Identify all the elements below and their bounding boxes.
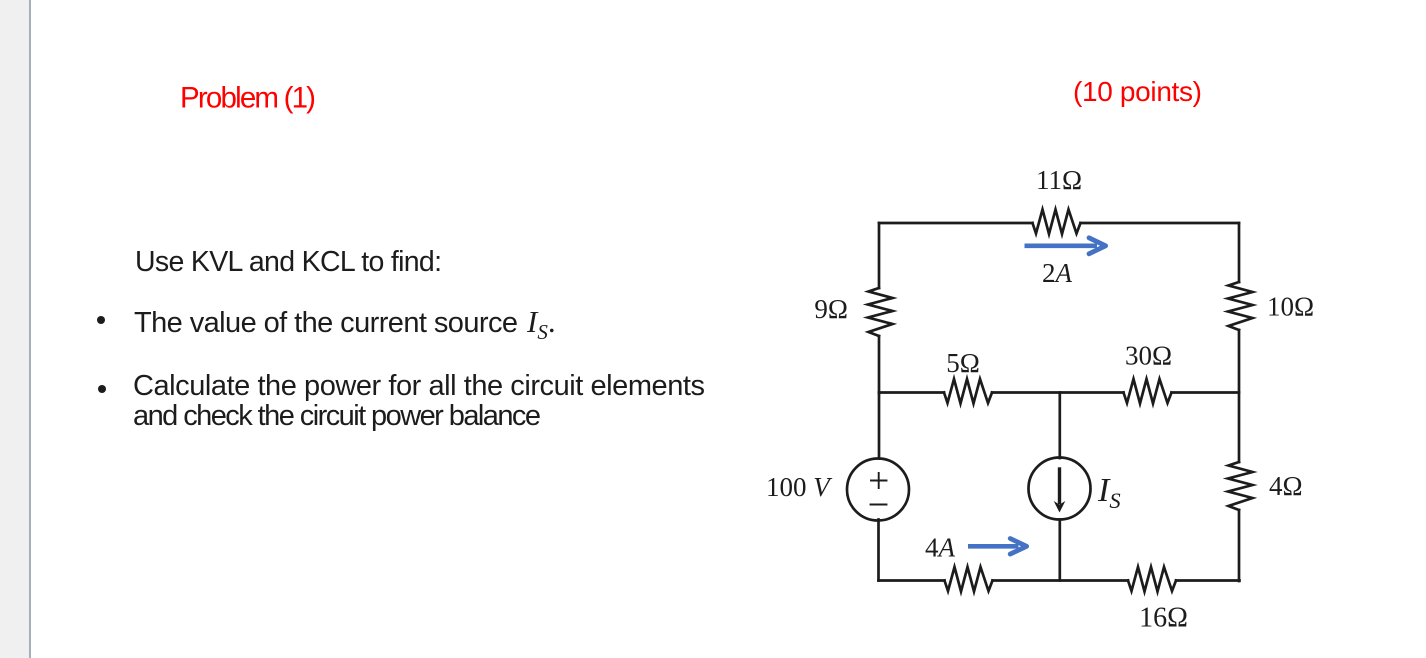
resistor R5 10ohm <box>1228 282 1253 330</box>
wire left rail upper (node A to R 9ohm) <box>878 223 881 288</box>
svg-text:4A: 4A <box>925 533 956 563</box>
wire current source to bottom wire <box>1058 520 1061 581</box>
svg-text:10Ω: 10Ω <box>1267 292 1314 322</box>
svg-text:The value of the current sourc: The value of the current source <box>134 307 518 339</box>
wire bottom-left segment <box>879 579 945 582</box>
svg-text:Use KVL and KCL to find:: Use KVL and KCL to find: <box>135 246 442 278</box>
resistor R4 16ohm <box>1128 567 1176 592</box>
left gray page margin strip <box>0 0 29 658</box>
blue current arrow 4A <box>968 539 1027 555</box>
wire bottom middle segment <box>993 579 1129 582</box>
svg-text:Calculate the power for all th: Calculate the power for all the circuit … <box>133 370 705 402</box>
current source IS circle <box>1029 458 1091 520</box>
svg-text:4Ω: 4Ω <box>1269 471 1303 501</box>
resistor R7 5ohm <box>944 379 992 404</box>
bullet dot 1 <box>97 316 105 324</box>
wire bottom-right segment <box>1176 579 1240 582</box>
wire left rail middle (R 9ohm to node C) <box>878 336 881 393</box>
wire right rail middle (R 10ohm to R 4ohm) <box>1238 330 1241 462</box>
svg-text:2A: 2A <box>1042 258 1073 288</box>
wire voltage source to bottom-left corner <box>877 520 880 581</box>
resistor R8 30ohm <box>1124 379 1172 404</box>
svg-text:16Ω: 16Ω <box>1139 603 1188 634</box>
resistor R6 4ohm <box>1228 462 1253 510</box>
svg-text:9Ω: 9Ω <box>814 294 848 324</box>
svg-text:IS.: IS. <box>526 304 556 344</box>
wire middle segment (R 5ohm to node D) <box>992 391 1124 394</box>
svg-text:5Ω: 5Ω <box>946 348 980 378</box>
svg-text:and check the circuit power ba: and check the circuit power balance <box>133 400 541 432</box>
resistor R2 9ohm <box>868 288 893 336</box>
svg-text:11Ω: 11Ω <box>1036 165 1082 195</box>
wire right rail lower (R 4ohm to bottom-right corner) <box>1238 510 1241 581</box>
current source arrowhead <box>1054 501 1066 513</box>
wire middle-right segment (R 30ohm to right rail) <box>1172 391 1240 394</box>
svg-text:(10 points): (10 points) <box>1073 76 1202 107</box>
blue current arrow 2A <box>1025 238 1106 254</box>
svg-text:Problem (1): Problem (1) <box>180 82 316 115</box>
current source arrow <box>1058 469 1061 503</box>
voltage source V1 100V circle <box>847 459 909 521</box>
left margin divider line <box>29 0 31 658</box>
wire top-right segment (R 11ohm to node B) <box>1081 222 1240 225</box>
voltage source plus sign <box>871 473 887 488</box>
svg-text:IS: IS <box>1097 472 1121 513</box>
svg-text:30Ω: 30Ω <box>1125 341 1172 371</box>
resistor R3 bottom-left <box>945 567 993 592</box>
wire top-left segment (node A to R 11ohm) <box>879 222 1033 225</box>
wire right rail upper (node B to R 10ohm) <box>1238 223 1241 282</box>
voltage source minus sign <box>871 504 887 506</box>
resistor R1 11ohm <box>1033 210 1081 235</box>
wire middle-left segment (node C to R 5ohm) <box>879 391 944 394</box>
wire middle vertical (node D to current source) <box>1058 393 1061 459</box>
wire left rail to voltage source <box>878 393 881 459</box>
svg-text:100 V: 100 V <box>766 472 833 502</box>
bullet dot 2 <box>98 385 106 393</box>
